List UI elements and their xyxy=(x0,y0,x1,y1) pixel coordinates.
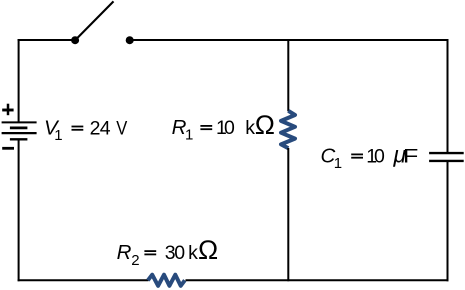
svg-text:1: 1 xyxy=(54,127,62,144)
wire: left vertical from top-left corner down to battery + plate xyxy=(18,39,20,122)
svg-text:R: R xyxy=(117,241,132,264)
switch S (open), pole contact dot xyxy=(71,36,79,44)
battery V1: second long plate xyxy=(2,132,37,134)
wire: right vertical from capacitor C1 down to bottom-right corner xyxy=(447,161,449,281)
battery + polarity sign xyxy=(2,104,13,116)
svg-text:0: 0 xyxy=(374,145,385,167)
battery V1: top long plate (+) xyxy=(2,121,37,123)
svg-text:k: k xyxy=(245,117,255,139)
svg-text:Ω: Ω xyxy=(198,235,218,265)
svg-text:1: 1 xyxy=(334,155,342,172)
wire: top segment from switch to top-right corner xyxy=(130,39,449,41)
label R1 = 10 kOhm xyxy=(172,110,275,144)
wire: top-left segment from left corner to switch pole xyxy=(18,39,76,41)
battery - polarity sign xyxy=(2,147,14,150)
label C1 = 10 uF xyxy=(321,141,419,172)
capacitor C1: top plate xyxy=(429,152,464,154)
svg-text:V: V xyxy=(116,117,127,139)
wire: right vertical from top-right corner down to capacitor C1 xyxy=(447,39,449,153)
svg-text:k: k xyxy=(188,242,198,264)
wire: left vertical from battery - plate down to bottom-left corner xyxy=(18,139,20,281)
svg-text:4: 4 xyxy=(100,117,111,139)
svg-text:Ω: Ω xyxy=(255,110,275,140)
svg-text:F: F xyxy=(403,145,418,167)
svg-text:2: 2 xyxy=(131,252,139,269)
wire: bottom segment from resistor R2 to bottom-right corner xyxy=(186,279,449,281)
label R2 = 30 kOhm xyxy=(117,235,219,269)
capacitor C1: bottom plate xyxy=(429,160,464,162)
svg-text:0: 0 xyxy=(224,117,235,139)
battery V1: bottom short plate (-) xyxy=(10,138,28,140)
switch throw contact dot xyxy=(126,36,134,44)
label V1 = 24 V xyxy=(44,116,127,144)
wire: middle vertical from resistor R1 down to bottom wire xyxy=(287,148,289,281)
svg-text:0: 0 xyxy=(174,242,185,264)
resistor R2 zigzag xyxy=(148,275,185,286)
svg-text:1: 1 xyxy=(185,126,193,143)
wire: bottom segment from bottom-left corner to resistor R2 xyxy=(18,279,149,281)
wire: middle vertical from top wire down to resistor R1 xyxy=(287,39,289,111)
resistor R1 zigzag xyxy=(281,111,295,148)
switch blade arm xyxy=(75,1,113,40)
battery V1: first short plate xyxy=(10,127,28,130)
